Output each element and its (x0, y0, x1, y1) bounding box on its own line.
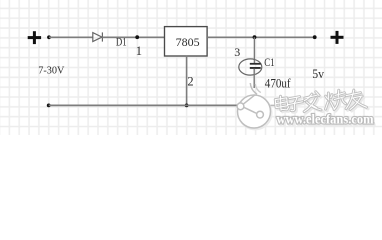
svg-text:D1: D1 (116, 37, 127, 49)
svg-text:1: 1 (136, 44, 142, 58)
node output end (313, 35, 317, 39)
svg-text:470uf: 470uf (265, 76, 291, 91)
svg-text:7805: 7805 (176, 35, 200, 49)
plus terminal output (331, 31, 344, 44)
plus terminal input (28, 31, 41, 44)
wire bottom rail (49, 104, 240, 106)
wire regulator to output (207, 36, 315, 38)
watermark url text (277, 112, 376, 128)
svg-text:www.elecfans.com: www.elecfans.com (277, 112, 375, 127)
svg-text:5v: 5v (312, 67, 325, 81)
node input junction (47, 35, 51, 39)
wire rail to capacitor (253, 37, 255, 63)
wire input to diode (49, 36, 93, 38)
wire regulator pin 2 down (186, 56, 188, 106)
capacitor C1 plates (250, 63, 261, 65)
diode D1 (93, 32, 103, 41)
node bottom left (47, 104, 51, 108)
node 1 junction (135, 35, 139, 39)
capacitor C1 body (239, 59, 262, 75)
regulator U1 7805 box (165, 27, 208, 56)
watermark logo circle (237, 83, 289, 130)
svg-text:2: 2 (187, 74, 193, 88)
node bottom pin2 junction (185, 104, 189, 108)
wire diode to regulator (102, 36, 164, 38)
svg-text:3: 3 (234, 45, 240, 59)
svg-text:7-30V: 7-30V (38, 65, 64, 77)
svg-text:C1: C1 (264, 57, 275, 69)
watermark chinese characters (275, 88, 368, 116)
node capacitor junction (253, 35, 257, 39)
wire capacitor down (253, 69, 255, 88)
